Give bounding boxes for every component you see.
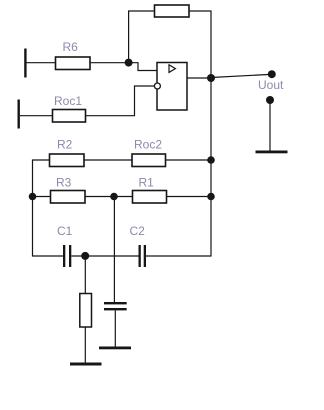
svg-text:Roc2: Roc2 <box>134 138 162 152</box>
svg-text:C2: C2 <box>130 224 146 238</box>
wire <box>166 159 212 161</box>
resistor R1 <box>133 191 167 204</box>
node A (junction at non-inverting path) <box>125 59 133 67</box>
node C1/RC junction <box>81 252 89 260</box>
op-amp U1 <box>157 63 187 111</box>
resistor R6 <box>56 57 91 70</box>
wire <box>84 159 132 161</box>
input terminal 2 (Roc1 input bar) <box>18 100 20 129</box>
wire <box>269 100 271 151</box>
op-amp amplifier triangle mark <box>169 65 175 73</box>
wire (feedback left riser) <box>129 11 155 63</box>
svg-text:R1: R1 <box>139 176 155 190</box>
capacitor C1 <box>63 245 71 267</box>
capacitor C2 <box>139 245 147 267</box>
wire <box>26 62 56 64</box>
wire (jog to op-amp top input) <box>129 63 157 71</box>
resistor R3 <box>51 191 86 204</box>
node middle junction R3/R1 <box>110 193 118 201</box>
node output junction <box>207 74 215 82</box>
node left bus / R3 row junction <box>29 193 37 201</box>
ground (under vertical resistor) <box>70 363 102 366</box>
node right bus / R2 row junction <box>207 156 215 164</box>
wire (left bus riser) <box>33 160 64 256</box>
wire (feedback right, down main right bus) <box>146 11 211 256</box>
svg-text:R6: R6 <box>63 40 79 54</box>
wire <box>84 327 86 363</box>
resistor Roc1 <box>53 110 86 123</box>
wire (junction down to vertical resistor) <box>84 256 86 294</box>
wire <box>167 196 212 198</box>
wire <box>20 115 53 117</box>
node Uout terminal dot <box>268 70 276 78</box>
resistor R2 <box>50 154 85 167</box>
svg-text:C1: C1 <box>57 224 73 238</box>
resistor (vertical, unlabeled) <box>80 294 92 328</box>
ground (under bottom capacitor) <box>99 347 131 350</box>
wire (to inverting input) <box>86 86 155 116</box>
feedback resistor <box>155 5 190 17</box>
wire <box>90 62 129 64</box>
svg-text:R3: R3 <box>56 176 72 190</box>
resistor Roc2 <box>132 154 166 167</box>
svg-text:Roc1: Roc1 <box>54 94 82 108</box>
capacitor (bottom, horizontal plates, unlabeled) <box>104 302 127 310</box>
node ground-branch dot under Uout <box>266 96 274 104</box>
node right bus / R1 row junction <box>207 193 215 201</box>
wire (op-amp output) <box>187 77 211 79</box>
svg-text:R2: R2 <box>57 138 73 152</box>
ground (Uout branch) <box>256 151 288 154</box>
wire <box>33 196 51 198</box>
wire (middle vertical down to C3 cap) <box>113 197 115 303</box>
wire <box>114 310 116 346</box>
op-amp inverting input circle <box>154 83 160 89</box>
wire (to Uout terminal) <box>211 75 268 78</box>
wire <box>71 255 138 257</box>
svg-text:Uout: Uout <box>258 78 284 92</box>
input terminal 1 (R6 input bar) <box>24 49 26 78</box>
wire <box>85 196 133 198</box>
